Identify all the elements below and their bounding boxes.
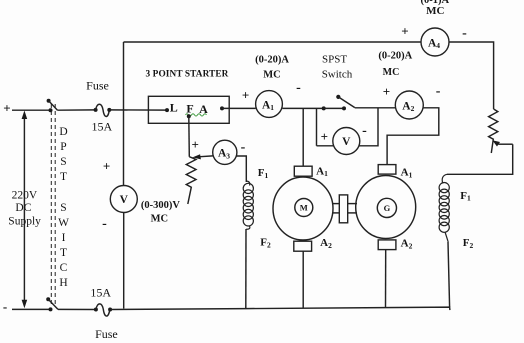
svg-text:-: - xyxy=(462,26,467,41)
wire fuse to starter L xyxy=(109,109,167,111)
svg-text:F2: F2 xyxy=(260,237,271,250)
svg-text:+: + xyxy=(401,23,408,38)
svg-text:D: D xyxy=(59,126,67,138)
svg-text:-: - xyxy=(102,217,107,232)
svg-text:(0-300)V: (0-300)V xyxy=(141,200,180,211)
label (0-300)V MC xyxy=(141,200,180,225)
svg-text:+: + xyxy=(383,84,390,99)
rheostat RH1 motor field zigzag xyxy=(186,157,196,204)
label A1 generator xyxy=(401,167,413,180)
svg-text:I: I xyxy=(62,232,66,244)
ammeter A4 xyxy=(421,28,449,56)
wire branch down to motor armature xyxy=(302,108,304,166)
label plus A2 xyxy=(383,84,390,99)
node supply plus terminal xyxy=(3,101,10,116)
fuse F1 15A element xyxy=(96,104,110,116)
svg-text:MC: MC xyxy=(426,5,444,17)
node fuse F2 right dot xyxy=(108,308,112,312)
label F1 motor field xyxy=(258,167,269,180)
motor M armature top terminal box xyxy=(294,166,312,176)
svg-text:Supply: Supply xyxy=(8,216,41,228)
svg-text:15A: 15A xyxy=(90,286,111,300)
label F2 generator field xyxy=(463,237,474,250)
svg-text:+: + xyxy=(321,129,328,144)
svg-text:3 POINT STARTER: 3 POINT STARTER xyxy=(146,70,229,80)
svg-text:A2: A2 xyxy=(320,237,332,250)
svg-text:A1: A1 xyxy=(401,167,413,180)
svg-text:Fuse: Fuse xyxy=(95,327,118,341)
ammeter A1 xyxy=(256,91,283,118)
wire top to fuse xyxy=(58,109,96,111)
svg-text:-: - xyxy=(362,124,367,139)
wire SPST between contacts xyxy=(324,107,344,109)
label A2 generator xyxy=(401,238,413,251)
svg-text:MC: MC xyxy=(263,70,281,81)
inductor motor field F1-F2 coil xyxy=(243,181,253,229)
generator G inner circle xyxy=(377,198,396,217)
svg-text:S: S xyxy=(60,156,66,168)
shaft coupling bars left xyxy=(332,203,339,205)
wire top field bus left of A4 xyxy=(124,41,422,43)
svg-text:L: L xyxy=(170,101,178,115)
svg-text:P: P xyxy=(60,141,66,153)
node DPST bottom blade end dot xyxy=(46,297,50,301)
svg-text:-: - xyxy=(436,84,441,99)
inductor generator field F1-F2 coil xyxy=(439,174,449,242)
label 15A bottom xyxy=(90,286,111,300)
wire supply negative lead xyxy=(12,308,51,310)
switch DPST bottom blade xyxy=(48,299,58,309)
rheostat RH1 wiper arrow from A3 xyxy=(193,154,213,159)
rheostat RH2 generator field zigzag xyxy=(489,109,498,153)
label starter A xyxy=(199,102,208,116)
svg-text:(0-20)A: (0-20)A xyxy=(378,51,412,62)
svg-text:(0-20)A: (0-20)A xyxy=(255,55,289,66)
node SPST right contact dot xyxy=(342,106,346,110)
voltmeter V1 (0-300)V xyxy=(110,186,137,213)
node DPST top blade end dot xyxy=(47,99,51,103)
wire A4 to right corner and down xyxy=(449,42,494,109)
svg-text:SPST: SPST xyxy=(322,54,347,66)
svg-text:H: H xyxy=(59,277,67,289)
svg-text:T: T xyxy=(60,171,67,183)
wire A3 to motor field coil xyxy=(236,156,246,182)
svg-text:F1: F1 xyxy=(460,190,471,203)
wire supply positive lead xyxy=(12,109,51,111)
wire left riser top (to field circuit bus) xyxy=(123,42,125,186)
svg-text:A1: A1 xyxy=(316,165,328,178)
wire voltmeter loop bottom left xyxy=(317,145,334,147)
node fuse F1 left dot xyxy=(94,108,98,112)
node fuse F2 left dot xyxy=(94,308,98,312)
label plus V1 xyxy=(103,159,110,174)
node DPST top pivot dot xyxy=(49,108,53,112)
grammar squiggle under F A xyxy=(186,114,207,116)
svg-text:MC: MC xyxy=(151,214,169,225)
label A1 motor xyxy=(316,165,328,178)
label 3 POINT STARTER xyxy=(146,70,229,80)
wire motor field coil to bottom bus xyxy=(245,229,247,309)
label minus V1 xyxy=(102,217,107,232)
label minus A3 xyxy=(241,140,246,155)
svg-text:V: V xyxy=(120,194,129,206)
svg-text:-: - xyxy=(3,299,7,314)
ammeter A2 xyxy=(395,91,423,119)
svg-text:M: M xyxy=(300,203,308,213)
svg-text:A2: A2 xyxy=(402,100,414,113)
generator G armature top terminal box xyxy=(378,165,396,175)
label SPST Switch xyxy=(322,54,353,81)
svg-text:-: - xyxy=(296,81,301,96)
node starter L terminal dot xyxy=(165,108,169,112)
svg-text:A: A xyxy=(199,102,208,116)
wire A2 loop to generator armature xyxy=(387,108,439,165)
wire generator armature to bottom bus xyxy=(385,250,387,308)
node SPST blade end dot xyxy=(336,95,340,99)
svg-text:F1: F1 xyxy=(258,167,269,180)
label starter F xyxy=(186,102,193,116)
label 15A top xyxy=(91,120,112,134)
wire starter F down to rheostat xyxy=(188,116,191,157)
label (0-1)A MC over A4 xyxy=(421,0,450,17)
switch DPST top blade xyxy=(49,101,58,110)
wire motor armature to bottom bus xyxy=(302,251,304,308)
shaft coupling bars right xyxy=(348,203,357,205)
label starter L xyxy=(170,101,178,115)
wire starter A to ammeter A1 xyxy=(222,107,256,109)
label Fuse bottom xyxy=(95,327,118,341)
svg-text:220V: 220V xyxy=(12,190,38,202)
generator G body xyxy=(356,176,416,239)
label DPST SWITCH vertical xyxy=(58,126,69,289)
svg-text:+: + xyxy=(103,159,110,174)
switch DPST mechanical link dashed lines xyxy=(51,104,55,306)
svg-text:DC: DC xyxy=(15,202,31,214)
rheostat RH2 wiper arrow xyxy=(492,140,512,146)
starter box xyxy=(148,96,229,123)
svg-text:G: G xyxy=(384,203,391,213)
generator G armature bottom terminal box xyxy=(378,240,396,250)
svg-text:15A: 15A xyxy=(91,120,112,134)
wire bottom bus xyxy=(110,307,450,310)
label plus A3 xyxy=(191,137,198,152)
svg-text:A4: A4 xyxy=(428,37,440,50)
label A2 motor xyxy=(320,237,332,250)
shaft coupling flange xyxy=(339,195,347,223)
label minus A2 xyxy=(436,84,441,99)
svg-text:MC: MC xyxy=(383,67,400,78)
motor M body xyxy=(273,177,333,240)
voltage dimension arrow 220V supply xyxy=(22,111,28,309)
svg-text:-: - xyxy=(241,140,246,155)
svg-text:+: + xyxy=(3,101,10,116)
wire bottom to fuse xyxy=(58,308,96,310)
svg-text:V: V xyxy=(342,136,351,148)
wire SPST to ammeter A2 xyxy=(355,107,396,109)
svg-text:T: T xyxy=(60,247,67,259)
ammeter A3 xyxy=(213,140,237,164)
label minus A1 xyxy=(296,81,301,96)
label F2 motor field xyxy=(260,237,271,250)
wire RH2 wiper to generator field coil xyxy=(447,144,513,174)
label (0-20)A MC over A1 xyxy=(255,55,289,81)
svg-text:A3: A3 xyxy=(218,148,230,161)
svg-text:C: C xyxy=(60,262,68,274)
label 220V DC Supply xyxy=(8,190,41,228)
label minus A4 xyxy=(462,26,467,41)
node starter A terminal dot xyxy=(220,106,224,110)
node SPST left contact dot xyxy=(322,106,326,110)
wire voltmeter loop bottom right xyxy=(359,108,378,146)
wire left riser below voltmeter xyxy=(123,212,125,308)
wire generator field coil to bottom bus xyxy=(448,242,450,307)
label minus V2 xyxy=(362,124,367,139)
switch SPST blade xyxy=(338,97,355,108)
svg-text:Fuse: Fuse xyxy=(86,79,109,93)
fuse F2 15A element xyxy=(96,304,110,316)
label plus A1 xyxy=(242,88,249,103)
motor M armature bottom terminal box xyxy=(294,241,312,251)
motor M inner circle xyxy=(295,199,313,217)
label plus A4 xyxy=(401,23,408,38)
label Fuse top xyxy=(86,79,109,93)
svg-text:Switch: Switch xyxy=(322,69,353,81)
node supply minus terminal xyxy=(3,299,7,314)
label plus V2 xyxy=(321,129,328,144)
svg-text:A1: A1 xyxy=(262,99,274,112)
svg-text:S: S xyxy=(60,202,66,214)
svg-text:+: + xyxy=(242,88,249,103)
svg-text:W: W xyxy=(58,217,69,229)
label F1 generator field xyxy=(460,190,471,203)
voltmeter V2 xyxy=(333,128,360,155)
node fuse F1 right dot xyxy=(107,108,111,112)
svg-text:A2: A2 xyxy=(401,238,413,251)
svg-text:F2: F2 xyxy=(463,237,474,250)
node starter F terminal dot xyxy=(187,114,191,118)
node DPST bottom pivot dot xyxy=(49,307,53,311)
label (0-20)A MC over A2 xyxy=(378,51,412,79)
svg-text:+: + xyxy=(191,137,198,152)
wire branch down to voltmeter loop left xyxy=(316,108,318,145)
wire A1 to SPST left contact xyxy=(282,107,323,109)
